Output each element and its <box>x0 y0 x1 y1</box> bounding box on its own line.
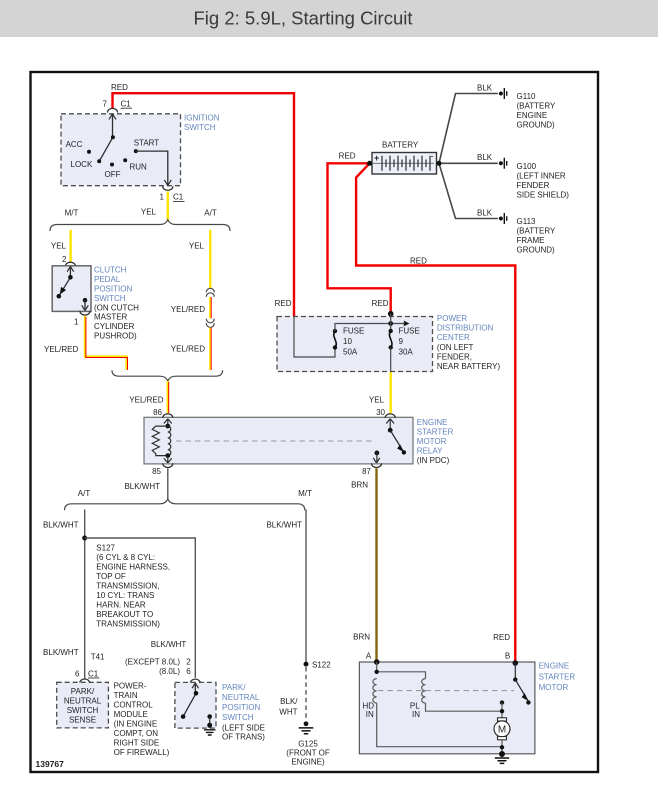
relay mechanical dashed link <box>176 440 373 442</box>
switch contact to motor <box>500 700 504 704</box>
park/neutral position switch contact to internal ground <box>207 714 212 719</box>
svg-text:139767: 139767 <box>36 759 65 769</box>
relay resistor <box>152 426 168 456</box>
inline connector top of bypass jumper <box>206 288 214 297</box>
svg-text:(ON CUTCH: (ON CUTCH <box>94 303 139 312</box>
svg-text:FRAME: FRAME <box>517 236 545 245</box>
pin 85 connector <box>163 463 173 467</box>
svg-text:(6 CYL & 8 CYL:: (6 CYL & 8 CYL: <box>96 553 155 562</box>
svg-text:YEL: YEL <box>141 208 157 217</box>
starter mechanical dashed link <box>378 690 514 692</box>
relay coil entry arrow <box>167 419 169 426</box>
brace splitting YEL to M/T and A/T <box>50 220 230 231</box>
fuse F9 30A <box>390 314 392 331</box>
splice S127 <box>82 536 87 541</box>
svg-text:SIDE SHIELD): SIDE SHIELD) <box>517 191 570 200</box>
wire BLK/WHT dashed S122 to ground G125 <box>305 667 307 721</box>
svg-text:Fig 2: 5.9L, Starting Circuit: Fig 2: 5.9L, Starting Circuit <box>193 8 412 29</box>
svg-text:BRN: BRN <box>351 481 368 490</box>
ignition switch lever <box>99 114 113 161</box>
svg-text:YEL/RED: YEL/RED <box>171 345 205 354</box>
svg-text:RED: RED <box>372 299 389 308</box>
wire YEL A/T branch to bypass jumper <box>209 230 211 289</box>
svg-text:START: START <box>134 139 160 148</box>
svg-text:BLK/WHT: BLK/WHT <box>151 640 187 649</box>
svg-text:(LEFT INNER: (LEFT INNER <box>517 172 566 181</box>
svg-text:RED: RED <box>111 83 128 92</box>
svg-text:BLK/WHT: BLK/WHT <box>266 521 302 530</box>
svg-text:9: 9 <box>399 337 404 346</box>
svg-text:(LEFT SIDE: (LEFT SIDE <box>222 723 265 732</box>
svg-text:COMPT, ON: COMPT, ON <box>114 729 159 738</box>
svg-text:TOP OF: TOP OF <box>96 572 126 581</box>
svg-text:LOCK: LOCK <box>71 160 93 169</box>
svg-text:50A: 50A <box>343 347 358 356</box>
svg-text:1: 1 <box>160 193 165 202</box>
svg-text:(ON LEFT: (ON LEFT <box>437 343 474 352</box>
wire YEL/RED clutch switch pin1 to brace <box>85 316 127 370</box>
node LOCK <box>97 159 101 163</box>
svg-text:RED: RED <box>275 299 292 308</box>
brace splitting BLK/WHT to A/T and M/T <box>65 499 305 510</box>
svg-text:PUSHROD): PUSHROD) <box>94 332 137 341</box>
svg-text:RED: RED <box>410 257 427 266</box>
svg-text:6: 6 <box>75 669 80 678</box>
svg-text:YEL: YEL <box>51 242 67 251</box>
relay coil exit arrow <box>167 456 169 463</box>
svg-text:A: A <box>366 651 372 660</box>
svg-text:TRAIN: TRAIN <box>114 691 138 700</box>
svg-text:HD: HD <box>363 701 375 710</box>
wire HD coil to motor ground bus <box>377 703 502 747</box>
power distribution center box <box>277 317 433 372</box>
svg-text:ENGINE HARNESS,: ENGINE HARNESS, <box>96 563 170 572</box>
svg-text:ENGINE): ENGINE) <box>291 757 325 766</box>
ignition switch box <box>61 114 181 186</box>
svg-text:ENGINE: ENGINE <box>517 111 548 120</box>
svg-text:TRANSMISSION,: TRANSMISSION, <box>96 582 159 591</box>
battery terminal nodes <box>367 161 372 166</box>
relay switch <box>389 419 391 430</box>
clutch pedal position switch box <box>52 266 91 312</box>
wire inside PDC to fuse10 <box>294 317 335 358</box>
svg-text:C1: C1 <box>173 193 184 202</box>
svg-text:M: M <box>498 724 506 735</box>
coil PL IN <box>422 679 426 703</box>
svg-text:FUSE: FUSE <box>343 327 364 336</box>
svg-text:(FRONT OF: (FRONT OF <box>286 748 330 757</box>
engine starter motor relay box <box>144 417 413 464</box>
svg-text:10 CYL: TRANS: 10 CYL: TRANS <box>96 591 154 600</box>
motor M <box>498 718 507 721</box>
svg-text:ENGINE: ENGINE <box>417 418 448 427</box>
ground at starter case <box>499 751 505 757</box>
svg-text:PARK/: PARK/ <box>222 683 246 692</box>
wire fuse10 to junction and feed arrow <box>335 324 406 332</box>
svg-text:(IN PDC): (IN PDC) <box>417 456 450 465</box>
park/neutral position switch box <box>175 682 216 728</box>
wire BLK/WHT splice S127 to park/neutral position switch <box>85 538 196 678</box>
svg-text:1: 1 <box>74 317 79 326</box>
svg-text:MODULE: MODULE <box>114 710 148 719</box>
pin 30 connector <box>385 414 395 418</box>
svg-text:IN: IN <box>412 710 420 719</box>
svg-text:GROUND): GROUND) <box>517 121 556 130</box>
svg-text:TRANSMISSION): TRANSMISSION) <box>96 620 160 629</box>
svg-text:SWITCH: SWITCH <box>184 123 216 132</box>
svg-text:-: - <box>431 151 434 161</box>
svg-text:ENGINE: ENGINE <box>539 662 570 671</box>
svg-text:CYLINDER: CYLINDER <box>94 322 135 331</box>
svg-text:G100: G100 <box>517 162 537 171</box>
svg-text:POSITION: POSITION <box>94 285 132 294</box>
svg-text:SWITCH: SWITCH <box>67 706 99 715</box>
wire RED battery to starter motor terminal B <box>356 163 515 661</box>
svg-text:M/T: M/T <box>65 209 79 218</box>
node START <box>134 149 138 153</box>
wire PL coil to motor feed <box>426 703 503 711</box>
svg-text:BLK/WHT: BLK/WHT <box>43 648 79 657</box>
svg-text:G125: G125 <box>298 739 318 748</box>
svg-text:(IN ENGINE: (IN ENGINE <box>114 720 158 729</box>
svg-text:G110: G110 <box>517 92 537 101</box>
svg-text:85: 85 <box>152 467 161 476</box>
starter internal wiring from A <box>377 662 426 679</box>
svg-text:OF FIREWALL): OF FIREWALL) <box>114 748 170 757</box>
wire BLK battery to ground G110 <box>439 94 498 164</box>
wire YEL/RED bypass jumper to brace <box>209 328 211 370</box>
pin 86 connector <box>163 414 173 418</box>
svg-text:YEL: YEL <box>189 242 205 251</box>
svg-text:CONTROL: CONTROL <box>114 701 154 710</box>
wire YEL/RED brace to relay pin 86 <box>167 381 169 413</box>
ground G125 <box>304 721 309 726</box>
clutch switch contact to pin 1 <box>83 298 88 303</box>
svg-text:BATTERY: BATTERY <box>382 141 419 150</box>
svg-text:BRN: BRN <box>353 632 370 641</box>
svg-text:CLUTCH: CLUTCH <box>94 266 127 275</box>
pin 1 C1 connector <box>163 186 173 190</box>
svg-text:M/T: M/T <box>298 489 312 498</box>
svg-text:DISTRIBUTION: DISTRIBUTION <box>437 324 494 333</box>
svg-text:IGNITION: IGNITION <box>184 113 220 122</box>
svg-text:RED: RED <box>339 152 356 161</box>
svg-text:30A: 30A <box>399 347 414 356</box>
svg-text:(8.0L): (8.0L) <box>159 667 180 676</box>
svg-text:G113: G113 <box>517 217 537 226</box>
svg-text:RELAY: RELAY <box>417 447 443 456</box>
wire YEL/RED bypass jumper <box>209 297 211 318</box>
svg-text:PL: PL <box>410 701 420 710</box>
svg-text:FUSE: FUSE <box>399 327 420 336</box>
svg-text:+: + <box>374 153 379 163</box>
svg-text:BLK/WHT: BLK/WHT <box>43 521 79 530</box>
svg-text:S127: S127 <box>96 544 115 553</box>
wire YEL M/T branch to clutch pedal switch pin2 <box>69 230 71 262</box>
svg-text:RIGHT SIDE: RIGHT SIDE <box>114 739 160 748</box>
engine starter motor box <box>359 662 535 754</box>
svg-text:BLK: BLK <box>477 208 493 217</box>
svg-text:PARK/: PARK/ <box>71 687 95 696</box>
svg-text:OFF: OFF <box>105 170 121 179</box>
svg-text:RUN: RUN <box>130 163 148 172</box>
svg-text:BREAKOUT TO: BREAKOUT TO <box>96 610 153 619</box>
ground G100 <box>499 161 503 165</box>
starter solenoid switch <box>514 663 516 680</box>
wire YEL ignition pin1 to brace <box>167 192 169 221</box>
pin connector of park/neutral position switch <box>190 679 200 683</box>
svg-text:STARTER: STARTER <box>539 672 576 681</box>
svg-text:YEL/RED: YEL/RED <box>129 395 163 404</box>
svg-text:YEL: YEL <box>369 395 385 404</box>
svg-text:IN: IN <box>366 710 374 719</box>
svg-text:(BATTERY: (BATTERY <box>517 227 556 236</box>
svg-text:HARN. NEAR: HARN. NEAR <box>96 601 146 610</box>
svg-text:BLK/WHT: BLK/WHT <box>124 482 160 491</box>
svg-text:YEL/RED: YEL/RED <box>44 345 78 354</box>
inline connector bottom of bypass jumper <box>206 319 214 328</box>
svg-text:NEUTRAL: NEUTRAL <box>222 693 260 702</box>
svg-text:2: 2 <box>62 255 67 264</box>
title bar <box>0 0 658 37</box>
svg-text:STARTER: STARTER <box>417 427 454 436</box>
wire YEL PDC fuse9 to relay pin 30 <box>390 372 392 413</box>
svg-text:A/T: A/T <box>204 209 217 218</box>
svg-text:POWER-: POWER- <box>114 682 147 691</box>
svg-text:PEDAL: PEDAL <box>94 275 121 284</box>
svg-text:MOTOR: MOTOR <box>539 683 569 692</box>
svg-text:GROUND): GROUND) <box>517 246 556 255</box>
wire BLK battery to ground G100 <box>439 162 498 164</box>
node ACC <box>87 150 91 154</box>
svg-text:SWITCH: SWITCH <box>94 294 126 303</box>
terminal A node <box>374 659 380 665</box>
wire BLK/WHT relay pin 85 to brace <box>167 468 169 499</box>
clutch switch lever <box>59 267 71 297</box>
svg-text:FENDER: FENDER <box>517 181 550 190</box>
svg-text:NEAR BATTERY): NEAR BATTERY) <box>437 362 501 371</box>
svg-text:6: 6 <box>186 667 191 676</box>
svg-text:(EXCEPT 8.0L): (EXCEPT 8.0L) <box>125 658 180 667</box>
park/neutral position switch lever <box>183 683 196 716</box>
svg-text:SENSE: SENSE <box>69 716 96 725</box>
svg-text:87: 87 <box>362 467 371 476</box>
relay coil winding <box>168 426 171 455</box>
wire RED ignition pin7 to PDC fuse10 <box>113 93 295 316</box>
splice S122 <box>304 662 309 667</box>
svg-text:A/T: A/T <box>78 489 91 498</box>
node junction on PDC border <box>388 311 394 317</box>
ground G110 <box>499 92 503 96</box>
node OFF <box>110 163 114 167</box>
svg-text:POWER: POWER <box>437 314 467 323</box>
svg-text:MASTER: MASTER <box>94 313 128 322</box>
svg-text:RED: RED <box>493 633 510 642</box>
wire START to pin1 <box>136 151 168 185</box>
svg-text:BLK: BLK <box>477 83 493 92</box>
svg-text:CENTER: CENTER <box>437 333 470 342</box>
wire BLK battery to ground G113 <box>439 163 498 218</box>
brace gathering YEL/RED wires <box>112 370 223 381</box>
svg-text:ACC: ACC <box>66 140 83 149</box>
svg-text:SWITCH: SWITCH <box>222 713 254 722</box>
svg-text:2: 2 <box>186 658 191 667</box>
svg-text:T41: T41 <box>91 653 105 662</box>
svg-text:30: 30 <box>376 408 385 417</box>
svg-text:C1: C1 <box>88 669 99 678</box>
ground G113 <box>499 217 503 221</box>
wire BRN relay pin 87 to starter terminal A <box>375 468 377 661</box>
svg-text:NEUTRAL: NEUTRAL <box>64 697 102 706</box>
svg-text:86: 86 <box>153 408 162 417</box>
svg-text:(BATTERY: (BATTERY <box>517 102 556 111</box>
svg-text:S122: S122 <box>312 660 331 669</box>
node RUN <box>123 158 127 162</box>
fuse F10 50A <box>333 329 337 333</box>
svg-text:FENDER,: FENDER, <box>437 352 472 361</box>
coil HD IN <box>373 679 377 703</box>
park/neutral switch sense box (PCM) <box>57 682 109 728</box>
pin 87 connector <box>371 463 381 467</box>
svg-text:BLK/: BLK/ <box>280 697 298 706</box>
motor to ground <box>501 740 503 754</box>
svg-text:C1: C1 <box>121 100 132 109</box>
pin 6 connector of PCM <box>80 679 90 683</box>
wire BLK/WHT M/T branch to splice S122 <box>305 510 307 665</box>
svg-text:MOTOR: MOTOR <box>417 437 447 446</box>
svg-text:POSITION: POSITION <box>222 703 260 712</box>
ground inside park/neutral position switch <box>207 723 212 728</box>
wire BLK/WHT A/T branch to splice S127 and PCM pin6 <box>84 510 86 679</box>
terminal B node <box>513 660 519 666</box>
battery cells <box>382 156 430 171</box>
svg-text:WHT: WHT <box>279 707 297 716</box>
pin 1 connector of clutch switch <box>80 311 90 315</box>
svg-text:B: B <box>505 651 510 660</box>
svg-text:OF TRANS): OF TRANS) <box>222 733 265 742</box>
svg-text:10: 10 <box>343 337 352 346</box>
svg-text:BLK: BLK <box>477 153 493 162</box>
svg-text:YEL/RED: YEL/RED <box>171 305 205 314</box>
wire RED battery to PDC fuse9 feed <box>328 163 391 313</box>
svg-text:7: 7 <box>103 100 108 109</box>
